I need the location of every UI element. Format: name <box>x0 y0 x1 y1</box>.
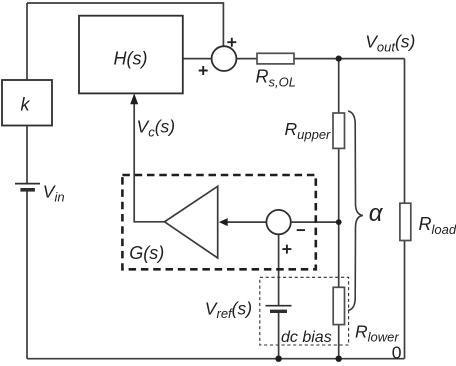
svg-text:α: α <box>369 200 384 227</box>
svg-text:G(s): G(s) <box>129 243 164 263</box>
svg-text:0: 0 <box>392 342 402 362</box>
svg-text:dc bias: dc bias <box>281 329 332 346</box>
svg-text:H(s): H(s) <box>114 48 148 68</box>
svg-text:k: k <box>21 95 31 115</box>
svg-text:Vc(s): Vc(s) <box>137 117 176 140</box>
